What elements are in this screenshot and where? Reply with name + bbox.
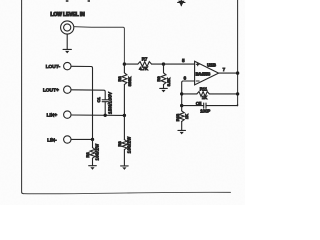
- wire J1 to node A: [74, 27, 125, 65]
- wire bottom border: [23, 192, 230, 194]
- wire right bus: [237, 0, 239, 106]
- wire left border: [22, 0, 24, 194]
- wire C1 to LIN+ node: [104, 102, 106, 115]
- svg-text:R8: R8: [117, 76, 122, 82]
- wire node C to R3: [123, 115, 125, 139]
- wire pin 6 to node D: [182, 81, 195, 111]
- wire J1 sleeve to ground: [66, 34, 68, 49]
- wire C5 to bus corner: [206, 104, 238, 106]
- svg-text:R2: R2: [85, 152, 90, 158]
- resistor R2: [90, 148, 95, 159]
- svg-text:C1: C1: [96, 97, 101, 103]
- connector LOUT-: [64, 62, 71, 69]
- output junction on bus: [236, 71, 239, 74]
- wire node A to R8: [123, 64, 125, 73]
- wire column to R2: [92, 139, 94, 147]
- connector J1 LOW LEVEL IN: [61, 21, 74, 34]
- svg-text:R13: R13: [175, 113, 180, 121]
- resistor R7: [138, 62, 152, 67]
- wire LIN+ to node C: [71, 114, 124, 116]
- svg-text:R9: R9: [156, 76, 161, 82]
- wire pin 7 to bus: [219, 72, 238, 74]
- wire node A to R7: [124, 63, 137, 65]
- wire LIN- to column: [71, 138, 93, 140]
- resistor R13: [179, 111, 184, 122]
- svg-text:U1B: U1B: [207, 63, 216, 68]
- svg-text:R3: R3: [117, 141, 122, 147]
- svg-text:100/2W: 100/2W: [127, 136, 132, 153]
- wire LOUT+ to C1: [71, 90, 105, 100]
- connector LIN+: [64, 111, 71, 118]
- wire R13 to ground: [181, 121, 183, 130]
- wire R9 to ground: [163, 85, 165, 89]
- ground below J1: [63, 48, 71, 50]
- resistor R8: [122, 73, 127, 85]
- capacitor C5: [204, 103, 206, 108]
- svg-text:4.7K: 4.7K: [139, 66, 148, 71]
- svg-text:LIN+: LIN+: [47, 112, 58, 117]
- svg-text:LIN-: LIN-: [47, 137, 57, 142]
- connector LIN-: [64, 136, 71, 143]
- svg-text:LOUT-: LOUT-: [46, 64, 61, 69]
- ground below R9: [160, 87, 168, 89]
- svg-text:LOUT+: LOUT+: [43, 87, 59, 92]
- wire LOUT- to column: [71, 66, 93, 139]
- svg-text:1K: 1K: [202, 95, 207, 100]
- svg-text:3.3K: 3.3K: [166, 78, 171, 87]
- ground below R3: [121, 165, 129, 167]
- svg-text:100/2W: 100/2W: [95, 144, 100, 161]
- svg-text:BA4558: BA4558: [196, 72, 211, 77]
- svg-text:100P: 100P: [200, 108, 210, 113]
- resistor R11: [197, 92, 209, 97]
- LIN- junction: [91, 138, 94, 141]
- node E junction (C5 tap): [180, 104, 183, 107]
- ground below R2: [89, 165, 97, 167]
- connector LOUT+: [64, 86, 71, 93]
- capacitor C1: [102, 100, 108, 102]
- svg-text:R11: R11: [200, 87, 208, 92]
- wire R11 to bus: [209, 93, 237, 95]
- svg-text:15N/100V: 15N/100V: [108, 92, 113, 114]
- speck top 1: [66, 0, 69, 2]
- node C junction: [123, 114, 126, 117]
- svg-text:R7: R7: [142, 56, 148, 61]
- wire R2 to ground: [92, 158, 94, 166]
- resistor R9: [161, 73, 166, 85]
- wire R7 to node B: [152, 63, 164, 65]
- wire node D to R11: [182, 93, 197, 95]
- svg-text:330K: 330K: [127, 77, 132, 87]
- C1 junction on LIN+ wire: [104, 114, 107, 117]
- ground below R13: [178, 129, 186, 131]
- svg-text:LOW LEVEL IN: LOW LEVEL IN: [50, 12, 85, 18]
- wire R8 to node C: [123, 85, 125, 116]
- node D junction (R11 tap): [180, 92, 183, 95]
- resistor R3: [122, 140, 127, 150]
- wire node E to C5: [182, 105, 204, 107]
- node A junction: [123, 62, 126, 65]
- wire R3 to ground: [123, 150, 125, 166]
- wire node B to R9: [163, 64, 165, 73]
- wire node B to pin 5: [164, 63, 195, 65]
- feedback junction on bus: [236, 92, 239, 95]
- speck top 2: [88, 0, 90, 2]
- node B junction: [162, 62, 165, 65]
- svg-text:C5: C5: [196, 101, 202, 106]
- svg-text:1K: 1K: [184, 114, 189, 119]
- off-page arrow (cut at top): [178, 0, 185, 6]
- op-amp U1B BA4558: [195, 61, 219, 85]
